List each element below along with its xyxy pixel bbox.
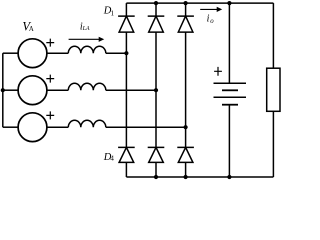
diode D2 [148, 16, 165, 32]
source VA circle [18, 39, 47, 68]
source VB circle [18, 76, 47, 105]
svg-text:o: o [210, 18, 214, 25]
wire right side top [272, 3, 274, 68]
wire battery top [228, 3, 230, 83]
wire B to inductor [47, 89, 68, 91]
svg-text:i: i [207, 14, 210, 25]
resistor load [267, 68, 280, 111]
inductor LB [68, 83, 106, 90]
node phase C bridge junction [184, 125, 188, 129]
wire stub phase B [3, 89, 18, 91]
svg-text:1: 1 [111, 9, 115, 18]
wire column2 middle [155, 32, 157, 147]
wire column1 top [125, 3, 127, 16]
wire column1 middle [125, 32, 127, 147]
diode D5 [148, 147, 165, 162]
node bottom bus D6 [184, 175, 188, 179]
wire top bus [126, 2, 273, 4]
polarity plus source B [46, 75, 54, 83]
diode D1 [118, 16, 135, 32]
diode D6 [177, 147, 194, 162]
wire column2 top [155, 3, 157, 16]
wire inductor C to bridge [106, 126, 186, 128]
inductor LA [68, 46, 106, 53]
node bottom bus battery [227, 175, 231, 179]
wire column3 bottom [185, 162, 187, 177]
wire right side bottom [272, 111, 274, 177]
wire battery bottom [228, 105, 230, 177]
wire column3 middle [185, 32, 187, 147]
node top bus battery [227, 1, 231, 5]
wire bottom bus [126, 176, 273, 178]
inductor LC [68, 120, 106, 127]
node phase B bridge junction [154, 88, 158, 92]
battery E [214, 83, 247, 105]
wire stub phase C [3, 126, 18, 128]
wire inductor B to bridge [106, 89, 156, 91]
node neutral junction [1, 88, 5, 92]
node top bus D3 [184, 1, 188, 5]
polarity plus source A [46, 39, 54, 47]
svg-text:LA: LA [82, 26, 90, 32]
wire column1 bottom [125, 162, 127, 177]
source VC circle [18, 113, 47, 142]
wire C to inductor [47, 126, 68, 128]
wire A to inductor [47, 52, 68, 54]
wire inductor A to bridge [106, 52, 127, 54]
node top bus D2 [154, 1, 158, 5]
wire column3 top [185, 3, 187, 16]
wire neutral vertical [2, 53, 4, 127]
polarity plus battery [214, 67, 222, 76]
node phase A bridge junction [124, 51, 128, 55]
node bottom bus D5 [154, 175, 158, 179]
polarity plus source C [46, 111, 54, 119]
diode D4 [118, 147, 135, 162]
diode D3 [177, 16, 194, 32]
svg-text:A: A [29, 26, 34, 33]
arrow io [200, 7, 222, 12]
svg-text:4: 4 [110, 154, 114, 163]
wire stub phase A [3, 52, 18, 54]
wire column2 bottom [155, 162, 157, 177]
arrow iLA [69, 37, 105, 42]
